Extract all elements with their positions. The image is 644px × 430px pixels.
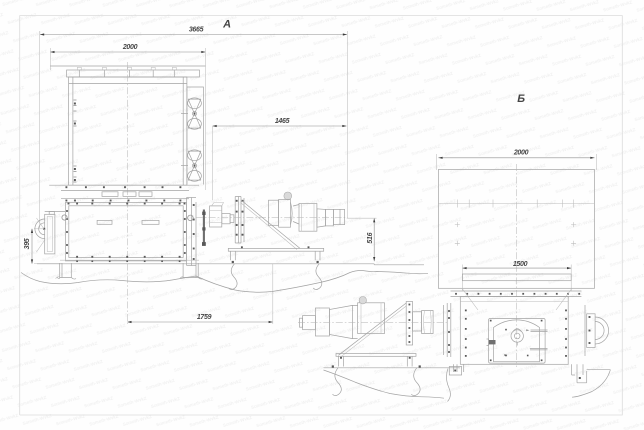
- motor shaft end: [333, 209, 344, 224]
- dim 395 line: [31, 229, 33, 264]
- mount plate bolts view B: [409, 304, 411, 306]
- flange bolts top row: [65, 186, 67, 188]
- door tubes: [530, 330, 548, 350]
- body view B inner top line: [460, 301, 568, 303]
- dim 3665 left extension: [39, 31, 41, 228]
- mount plate bolts: [236, 200, 238, 202]
- dim 1465 left extension: [212, 126, 214, 200]
- vibrator 2: [181, 150, 201, 181]
- door inner arch: [494, 320, 540, 362]
- hopper side crosses: [455, 222, 460, 227]
- drape hook right view B: [411, 368, 420, 396]
- dim 2000 line view A: [50, 51, 205, 53]
- mount plate view B: [406, 302, 412, 346]
- motor lifting eye: [284, 192, 292, 200]
- tension rod: [203, 210, 205, 246]
- vibrator channel: [187, 87, 204, 185]
- motor base channel view B: [336, 354, 416, 357]
- hopper left wall bolts: [74, 99, 77, 101]
- trough right flange: [187, 198, 196, 266]
- dim 395 extensions: [34, 228, 45, 230]
- dim 1759 right extension: [272, 264, 274, 325]
- rim dividers: [78, 70, 80, 77]
- dim 3665 right extension: [347, 31, 349, 218]
- left bearing plate: [45, 214, 55, 254]
- motor axis line: [196, 216, 348, 218]
- svg-text:1465: 1465: [275, 118, 290, 125]
- drive shaft: [222, 214, 230, 224]
- door latch: [489, 340, 496, 344]
- frame line: [37, 263, 374, 265]
- right leg: [180, 263, 203, 279]
- dim 1500 line: [462, 267, 571, 269]
- dim 516 top extension: [347, 217, 377, 219]
- flange bolts second row: [65, 200, 67, 202]
- flange bolts view B: [455, 293, 457, 295]
- dim 1759 line: [127, 321, 272, 323]
- frame line view B: [324, 367, 460, 369]
- trough left bolts: [66, 210, 68, 212]
- right end flange: [587, 314, 595, 348]
- motor clamp bolts view B: [340, 357, 342, 359]
- left bearing bracket: [49, 212, 54, 215]
- trough inner: [69, 206, 183, 258]
- svg-text:1500: 1500: [513, 261, 528, 268]
- dim 1465 line: [213, 125, 347, 127]
- trough bottom lines: [60, 259, 199, 261]
- left bearing braces: [37, 218, 45, 252]
- hopper outer wall: [69, 77, 187, 185]
- trough small circle left: [62, 215, 67, 220]
- hopper taper lines: [462, 288, 478, 310]
- feed opening band: [462, 274, 571, 281]
- ground wave view B: [324, 370, 445, 398]
- ground s-curve right view B: [572, 370, 610, 398]
- dim 2000 line view B: [438, 157, 594, 159]
- vibrator 1: [181, 98, 201, 129]
- door handle: [511, 330, 523, 342]
- motor body: [299, 204, 317, 232]
- svg-text:Б: Б: [517, 93, 525, 105]
- hopper top line: [50, 65, 205, 67]
- left leg: [57, 263, 76, 279]
- trough bottom bolt rows: [76, 256, 78, 258]
- hopper rect view B: [438, 170, 594, 289]
- body legs view B: [454, 364, 464, 372]
- ground wave A: [21, 271, 428, 293]
- door inner bolts: [505, 329, 507, 331]
- trough right bolts: [184, 210, 186, 212]
- motor bell housing: [279, 200, 291, 228]
- body left flange view B: [443, 303, 450, 357]
- right flange bolts: [193, 204, 195, 206]
- right end arc: [595, 317, 609, 344]
- dim 516 line: [373, 218, 375, 261]
- body right bolts column: [565, 310, 567, 312]
- motor box view B: [358, 303, 385, 334]
- hopper bottom flange view B: [451, 290, 582, 292]
- dim 2000 extensions view B: [436, 154, 438, 170]
- coupling waisted piece: [422, 311, 434, 334]
- drape hook left: [229, 264, 238, 290]
- motor axis line view B: [298, 322, 448, 324]
- hopper inner wall: [69, 77, 187, 185]
- hopper center line: [126, 62, 128, 324]
- drape hook right: [313, 264, 322, 290]
- svg-text:1759: 1759: [197, 314, 212, 321]
- motor adapter: [269, 200, 279, 225]
- flange slots: [102, 192, 118, 197]
- motor lifting eye view B: [359, 297, 366, 304]
- hopper bottom flange: [49, 184, 199, 186]
- diagonal brace: [241, 200, 300, 248]
- svg-text:2000: 2000: [122, 44, 138, 51]
- svg-text:2000: 2000: [513, 150, 529, 157]
- dim 1500 extensions: [461, 265, 463, 292]
- motor rear cap: [317, 209, 326, 227]
- hopper rim: [67, 70, 200, 77]
- door corner bolts: [490, 320, 492, 322]
- motor base legs: [230, 251, 320, 260]
- body left flange bolts: [448, 310, 450, 312]
- dim 2000 right extension: [205, 48, 207, 190]
- motor bell neck: [293, 205, 299, 225]
- body view B outer: [460, 297, 568, 365]
- svg-text:516: 516: [367, 232, 374, 243]
- motor base channel: [228, 248, 323, 251]
- motor mount plate: [235, 197, 244, 244]
- body left bolts column: [465, 310, 467, 312]
- hopper center line view B: [516, 164, 518, 367]
- motor body view B: [315, 308, 329, 336]
- svg-text:3665: 3665: [189, 27, 204, 34]
- trough middle slots: [97, 220, 112, 224]
- dim 2000 left extension: [49, 48, 51, 70]
- svg-text:А: А: [222, 18, 231, 30]
- right end bolts: [589, 316, 591, 318]
- bearing circle right: [188, 215, 194, 221]
- hopper inner line with crosses: [438, 203, 594, 205]
- trough outer: [65, 203, 186, 261]
- svg-text:395: 395: [24, 238, 31, 249]
- motor clamp bolts: [241, 246, 243, 248]
- drive housing block: [210, 206, 222, 227]
- inspection door: [489, 319, 545, 364]
- coupling block: [413, 312, 422, 331]
- bracket base line view B: [587, 369, 611, 371]
- left bearing arc: [35, 219, 45, 239]
- motor bell view B: [329, 305, 357, 338]
- trough top bolt row: [68, 203, 70, 205]
- motor base legs view B: [339, 356, 413, 366]
- right bracket view B: [572, 364, 587, 383]
- diagonal brace view B: [338, 303, 406, 355]
- motor shaft view B: [303, 316, 316, 330]
- drape hook left view B: [333, 368, 342, 396]
- ground drop line view B: [446, 369, 450, 402]
- dim 3665 line: [40, 34, 347, 36]
